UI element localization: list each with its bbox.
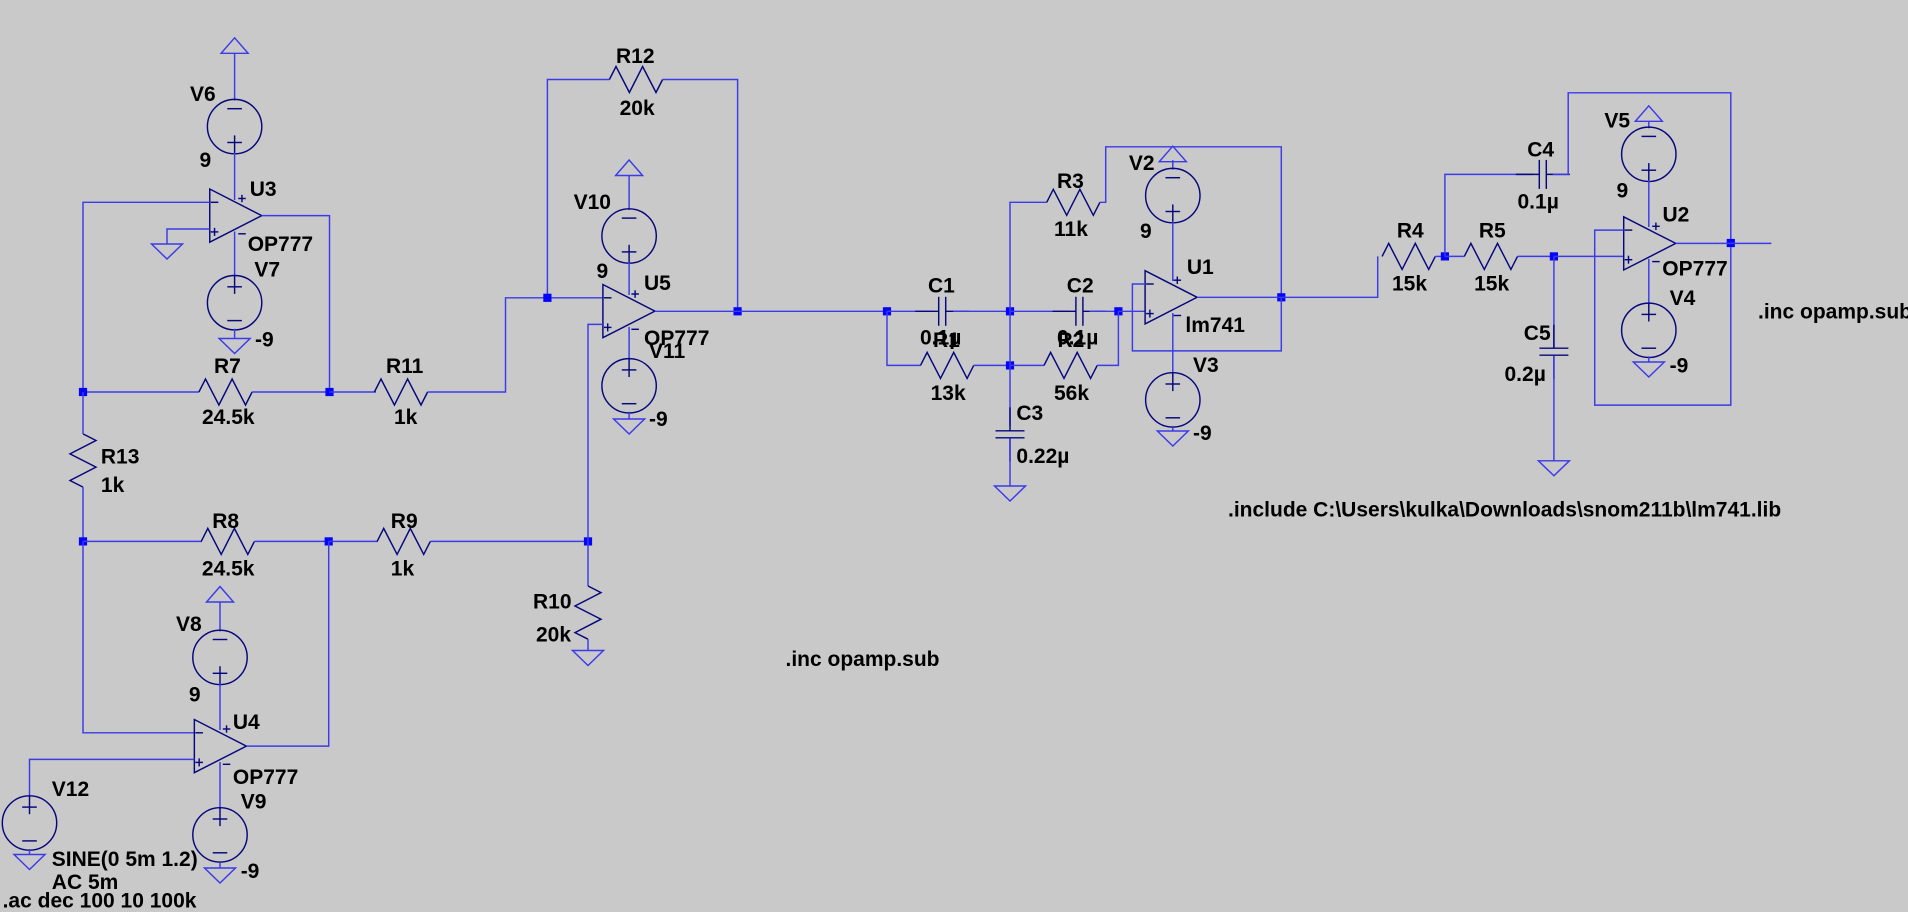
wire U4 V- pin to V9 <box>219 762 221 809</box>
wire node to C1 <box>887 310 933 312</box>
label R11 <box>386 355 424 378</box>
label U2 <box>1663 204 1690 227</box>
svg-text:R10: R10 <box>533 591 572 614</box>
wire R12 right leg <box>663 80 738 312</box>
svg-text:20k: 20k <box>620 97 655 120</box>
junction <box>1550 252 1558 260</box>
wire V5 flag stem <box>1648 121 1650 128</box>
svg-text:-9: -9 <box>649 408 668 431</box>
svg-text:U2: U2 <box>1663 204 1690 227</box>
label V9 <box>241 791 267 814</box>
label OP777 (U2) <box>1662 258 1727 281</box>
svg-text:9: 9 <box>1617 180 1629 203</box>
svg-text:OP777: OP777 <box>1662 258 1727 281</box>
wire V6 flag stem <box>234 53 236 100</box>
value 11k (R3) <box>1054 218 1088 241</box>
svg-text:V5: V5 <box>1604 110 1630 133</box>
value 15k (R4) <box>1392 273 1427 296</box>
label R1 (overlapping) <box>933 329 960 352</box>
value 0.1µ (C1) <box>920 327 961 350</box>
voltage source V3 <box>1146 373 1200 427</box>
ground (C5) <box>1538 461 1569 476</box>
value 13k (R1) <box>931 382 966 405</box>
value -9 (V7) <box>255 329 274 352</box>
wire U4 output up to node B <box>246 541 328 746</box>
voltage source V2 <box>1146 168 1200 222</box>
resistor R9 <box>377 528 430 554</box>
wire R7 to node A <box>252 391 330 393</box>
svg-text:1k: 1k <box>101 474 125 497</box>
value 0.1µ (C4) <box>1518 191 1559 214</box>
wire U5 output to C1 <box>655 310 887 312</box>
svg-text:-9: -9 <box>241 860 260 883</box>
label V6 <box>190 83 216 106</box>
wire V9 to ground <box>219 862 221 868</box>
svg-text:1k: 1k <box>394 406 418 429</box>
wire V3 to ground <box>1172 426 1174 431</box>
wire U1 output to R4 <box>1197 256 1378 297</box>
svg-text:9: 9 <box>200 149 212 172</box>
op-amp U5 <box>603 285 655 338</box>
value 1k (R9) <box>391 558 415 581</box>
value 20k (R10) <box>536 623 571 646</box>
wire R13 to lower rail node <box>82 487 84 541</box>
text SINE directive (V12) <box>52 848 198 871</box>
svg-text:R11: R11 <box>386 355 424 378</box>
power flag +9 (V8 top) <box>207 587 234 603</box>
wire V10 flag stem <box>628 176 630 211</box>
power flag +9 (V6 top) <box>221 38 248 54</box>
wire R1 to node D <box>974 364 1010 366</box>
wire U5 V- pin to V11 <box>628 327 630 360</box>
label R7 <box>214 355 241 378</box>
label V11 <box>649 340 686 363</box>
junction <box>79 388 87 396</box>
svg-text:V12: V12 <box>52 778 89 801</box>
capacitor C4 <box>1516 160 1570 189</box>
svg-text:11k: 11k <box>1054 218 1088 241</box>
label R13 <box>101 445 140 468</box>
capacitor C1 <box>915 297 969 326</box>
label R4 <box>1397 220 1424 243</box>
wire R3 to U1 output node <box>1100 147 1281 297</box>
svg-text:R9: R9 <box>391 510 418 533</box>
junction <box>734 307 742 315</box>
label C2 <box>1067 275 1094 298</box>
value 0.22µ (C3) <box>1016 445 1069 468</box>
value 9 (V8) <box>189 683 201 706</box>
junction <box>325 388 333 396</box>
wire V2 to U1 V+ pin <box>1172 222 1174 281</box>
value 1k (R13) <box>101 474 125 497</box>
wire V12 to ground <box>29 849 31 855</box>
svg-text:U4: U4 <box>233 711 260 734</box>
junction <box>325 537 333 545</box>
ground (V3) <box>1157 431 1188 446</box>
svg-text:SINE(0 5m 1.2): SINE(0 5m 1.2) <box>52 848 198 871</box>
junction <box>584 537 592 545</box>
svg-text:24.5k: 24.5k <box>202 558 255 581</box>
resistor R11 <box>374 379 427 405</box>
svg-text:24.5k: 24.5k <box>202 406 255 429</box>
wire V11 to ground <box>628 412 630 419</box>
svg-text:V11: V11 <box>649 340 686 363</box>
ground (V4) <box>1633 362 1664 377</box>
capacitor C3 <box>996 407 1025 461</box>
ground (V9) <box>205 868 236 883</box>
svg-text:V2: V2 <box>1129 152 1155 175</box>
label U1 <box>1187 256 1214 279</box>
value -9 (V3) <box>1193 422 1212 445</box>
svg-text:.include C:\Users\kulka\Downlo: .include C:\Users\kulka\Downloads\snom21… <box>1228 499 1781 522</box>
label V10 <box>574 191 611 214</box>
voltage source V11 <box>602 359 656 413</box>
svg-text:C4: C4 <box>1527 139 1554 162</box>
wire R11 to U5 inverting input <box>428 298 603 392</box>
wire U2 V- pin to V4 <box>1648 259 1650 304</box>
value 56k (R2) <box>1054 382 1089 405</box>
op-amp U1 <box>1145 271 1197 324</box>
label V3 <box>1193 354 1219 377</box>
op-amp U2 <box>1624 217 1676 270</box>
wire C5 to ground <box>1553 356 1555 461</box>
voltage source V9 <box>193 808 247 862</box>
svg-text:U3: U3 <box>250 178 277 201</box>
junction <box>1006 307 1014 315</box>
label OP777 (U5) <box>644 327 709 350</box>
wire V8 flag stem <box>219 602 221 632</box>
value 9 (V5) <box>1617 180 1629 203</box>
wire R4 to node F <box>1435 255 1445 257</box>
label R8 <box>212 510 239 533</box>
svg-text:R2: R2 <box>1058 329 1085 352</box>
resistor R4 <box>1382 243 1435 269</box>
text .ac dec 100 10 100k <box>3 889 197 912</box>
svg-text:13k: 13k <box>931 382 966 405</box>
wire U3 output down to R7 node <box>262 216 330 392</box>
wire node A rail to R13 <box>82 392 84 434</box>
svg-text:-9: -9 <box>255 329 274 352</box>
svg-text:9: 9 <box>1140 220 1152 243</box>
svg-text:R3: R3 <box>1057 170 1084 193</box>
value 0.1µ (C2) <box>1057 327 1098 350</box>
svg-text:-9: -9 <box>1193 422 1212 445</box>
text AC directive (V12) <box>52 871 119 894</box>
voltage source V5 <box>1622 127 1676 181</box>
value 1k (R11) <box>394 406 418 429</box>
wire lower rail node to R8 <box>83 540 202 542</box>
value 24.5k (R7) <box>202 406 255 429</box>
junction <box>1727 239 1735 247</box>
svg-text:.ac dec 100 10 100k: .ac dec 100 10 100k <box>3 889 197 912</box>
value -9 (V9) <box>241 860 260 883</box>
wire U2 output <box>1676 242 1772 244</box>
voltage source V8 <box>193 630 247 684</box>
text .inc opamp.sub (right) <box>1758 301 1908 324</box>
wire C1 to node C <box>953 310 1010 312</box>
wire node D down to C3 <box>1009 365 1011 426</box>
resistor R1 <box>921 352 974 378</box>
power flag +9 (V5 top) <box>1635 106 1662 122</box>
resistor R2 <box>1044 352 1097 378</box>
wire U3 V- pin to V7 <box>234 232 236 277</box>
svg-text:OP777: OP777 <box>248 233 313 256</box>
svg-text:R5: R5 <box>1479 220 1506 243</box>
wire C3 to ground <box>1009 438 1011 486</box>
svg-text:C2: C2 <box>1067 275 1094 298</box>
ground (U3 + input) <box>152 244 183 259</box>
wire U2 inverting input feedback box <box>1595 230 1731 405</box>
label OP777 (U3) <box>248 233 313 256</box>
label C4 <box>1527 139 1554 162</box>
wire U5 non-inverting input down to R9/R10 node <box>588 324 603 541</box>
value 20k (R12) <box>620 97 655 120</box>
ground (V12) <box>14 855 45 870</box>
svg-text:-9: -9 <box>1670 355 1689 378</box>
wire node E to U1 non-inverting input <box>1118 310 1145 312</box>
ground (C3) <box>995 486 1026 501</box>
svg-text:V3: V3 <box>1193 354 1219 377</box>
label R12 <box>616 45 655 68</box>
resistor R7 <box>199 379 252 405</box>
svg-text:V4: V4 <box>1670 287 1696 310</box>
svg-text:9: 9 <box>189 683 201 706</box>
wire node D to R2 <box>1010 364 1044 366</box>
svg-text:C1: C1 <box>928 275 955 298</box>
resistor R10 <box>575 586 601 639</box>
wire left rail to R7 <box>83 391 199 393</box>
svg-text:C5: C5 <box>1524 322 1551 345</box>
svg-text:V6: V6 <box>190 83 216 106</box>
label V8 <box>176 613 202 636</box>
svg-text:C3: C3 <box>1016 402 1043 425</box>
wire R12 left leg <box>547 80 609 298</box>
power flag +9 (V10 top) <box>616 160 643 176</box>
capacitor C2 <box>1052 297 1106 326</box>
value 9 (V10) <box>597 260 609 283</box>
voltage source V7 <box>207 276 261 330</box>
resistor R8 <box>201 528 254 554</box>
value 9 (V2) <box>1140 220 1152 243</box>
label V2 <box>1129 152 1155 175</box>
label lm741 (U1) <box>1185 314 1245 337</box>
value 24.5k (R8) <box>202 558 255 581</box>
label C5 <box>1524 322 1551 345</box>
junction <box>1006 361 1014 369</box>
wire node B to R9 <box>329 540 378 542</box>
label R5 <box>1479 220 1506 243</box>
voltage source V6 <box>207 99 261 153</box>
svg-text:U1: U1 <box>1187 256 1214 279</box>
svg-text:15k: 15k <box>1474 273 1509 296</box>
value -9 (V11) <box>649 408 668 431</box>
resistor R13 <box>70 434 96 487</box>
svg-text:R1: R1 <box>933 329 960 352</box>
label R2 (overlapping) <box>1058 329 1085 352</box>
wire node A to R11 <box>330 391 377 393</box>
wire node C up to R3 <box>1010 202 1047 311</box>
label OP777 (U4) <box>233 766 298 789</box>
voltage source V4 <box>1622 303 1676 357</box>
svg-text:OP777: OP777 <box>233 766 298 789</box>
svg-text:lm741: lm741 <box>1185 314 1245 337</box>
junction <box>1441 252 1449 260</box>
op-amp U4 <box>194 720 246 773</box>
svg-text:0.2µ: 0.2µ <box>1505 363 1546 386</box>
wire V10 to U5 V+ pin <box>628 262 630 295</box>
power flag +9 (V2 top) <box>1159 146 1186 162</box>
label R9 <box>391 510 418 533</box>
label V4 <box>1670 287 1696 310</box>
junction <box>1114 307 1122 315</box>
svg-text:9: 9 <box>597 260 609 283</box>
wire R8 to node B <box>254 540 328 542</box>
value 0.2µ (C5) <box>1505 363 1546 386</box>
junction <box>883 307 891 315</box>
ground (V7) <box>219 339 250 354</box>
wire C2 to node E <box>1089 310 1118 312</box>
wire V4 to ground <box>1648 356 1650 362</box>
label V12 <box>52 778 89 801</box>
text .inc opamp.sub (mid) <box>786 648 940 671</box>
svg-text:V9: V9 <box>241 791 267 814</box>
wire U1 inverting input feedback <box>1132 284 1281 351</box>
wire node C to C2 <box>1010 310 1069 312</box>
label R3 <box>1057 170 1084 193</box>
wire node G down to C5 <box>1553 256 1555 347</box>
wire node C to node D <box>1009 311 1011 365</box>
wire node down to R1 <box>887 311 921 365</box>
svg-text:1k: 1k <box>391 558 415 581</box>
label U4 <box>233 711 260 734</box>
wire V6 to U3 V+ pin <box>234 153 236 200</box>
wire V2 flag stem <box>1172 160 1174 170</box>
voltage source V10 <box>602 209 656 263</box>
label U5 <box>644 272 671 295</box>
junction <box>79 537 87 545</box>
label V5 <box>1604 110 1630 133</box>
wire node F up to C4 <box>1445 174 1533 256</box>
svg-text:R7: R7 <box>214 355 241 378</box>
wire V5 to U2 V+ pin <box>1648 180 1650 227</box>
wire left rail to U4 inverting input <box>83 541 194 732</box>
svg-text:R4: R4 <box>1397 220 1424 243</box>
svg-text:V8: V8 <box>176 613 202 636</box>
ground (V11) <box>614 419 645 434</box>
wire V8 to U4 V+ pin <box>219 683 221 730</box>
wire V7 to ground <box>234 329 236 339</box>
value -9 (V4) <box>1670 355 1689 378</box>
svg-text:V7: V7 <box>254 258 280 281</box>
wire node F to R5 <box>1445 255 1464 257</box>
label U3 <box>250 178 277 201</box>
svg-text:R8: R8 <box>212 510 239 533</box>
svg-text:15k: 15k <box>1392 273 1427 296</box>
svg-text:V10: V10 <box>574 191 611 214</box>
junction <box>1277 293 1285 301</box>
resistor R3 <box>1047 189 1100 215</box>
svg-text:.inc opamp.sub: .inc opamp.sub <box>1758 301 1908 324</box>
label V7 <box>254 258 280 281</box>
label R10 <box>533 591 572 614</box>
wire R9 to U5 non-inverting node <box>430 540 588 542</box>
text .include lm741.lib <box>1228 499 1781 522</box>
wire U3 non-inverting input to ground <box>167 229 210 244</box>
svg-text:.inc opamp.sub: .inc opamp.sub <box>786 648 940 671</box>
ground (R10) <box>573 651 604 666</box>
wire U1 V- pin to V3 <box>1172 313 1174 374</box>
wire R2 up to node E <box>1097 311 1118 365</box>
wire U3 inverting input to left rail <box>83 202 210 392</box>
wire R5 to node G <box>1518 255 1554 257</box>
wire C4 over the top to U2 output <box>1553 93 1731 243</box>
wire node G to U2 non-inverting input <box>1554 255 1624 257</box>
resistor R5 <box>1464 243 1517 269</box>
svg-text:20k: 20k <box>536 623 571 646</box>
resistor R12 <box>609 67 662 93</box>
wire node to R10 <box>587 541 589 586</box>
junction <box>543 294 551 302</box>
voltage source V12 <box>2 796 56 850</box>
svg-text:U5: U5 <box>644 272 671 295</box>
label C3 <box>1016 402 1043 425</box>
svg-text:R12: R12 <box>616 45 655 68</box>
svg-text:0.22µ: 0.22µ <box>1016 445 1069 468</box>
label C1 <box>928 275 955 298</box>
capacitor C5 <box>1539 325 1568 379</box>
wire R10 to ground <box>587 639 589 650</box>
value 9 (V6) <box>200 149 212 172</box>
svg-text:R13: R13 <box>101 445 140 468</box>
op-amp U3 <box>210 189 262 242</box>
value 15k (R5) <box>1474 273 1509 296</box>
wire U4 non-inverting input to V12 <box>30 759 195 797</box>
svg-text:56k: 56k <box>1054 382 1089 405</box>
svg-text:0.1µ: 0.1µ <box>1518 191 1559 214</box>
